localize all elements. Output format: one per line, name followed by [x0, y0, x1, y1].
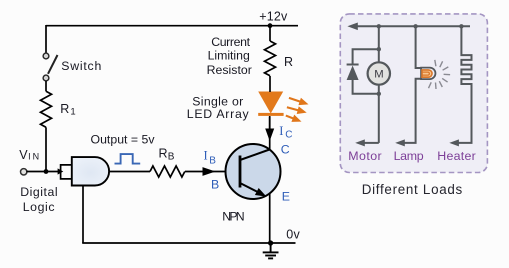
wire collector vertical — [269, 116, 271, 150]
svg-text:1: 1 — [70, 107, 75, 118]
svg-text:+12v: +12v — [259, 9, 288, 23]
wire gate bottom — [82, 186, 84, 244]
wire top rail +12v — [46, 25, 298, 27]
wire motor branch upper — [378, 26, 380, 63]
svg-text:I: I — [204, 149, 208, 163]
transistor NPN body — [226, 144, 281, 199]
svg-text:Lamp: Lamp — [394, 149, 424, 163]
gate input bracket — [61, 165, 72, 179]
svg-text:Limiting: Limiting — [208, 48, 250, 62]
node diode bottom junction — [377, 92, 381, 96]
arrowhead motor return — [355, 139, 365, 146]
svg-text:Heater: Heater — [437, 149, 476, 163]
wire VIN to gate — [26, 171, 60, 173]
switch — [43, 53, 57, 81]
arrowhead IC current — [265, 129, 274, 142]
arrowhead into gate — [58, 168, 64, 174]
wire emitter vertical — [269, 194, 271, 244]
wire LED to collector — [269, 117, 271, 130]
LED — [258, 92, 283, 116]
wire left vertical to switch — [45, 25, 47, 53]
transistor collector stroke — [240, 150, 270, 161]
node heater top — [459, 24, 463, 28]
svg-text:Different Loads: Different Loads — [362, 182, 463, 197]
node +12v junction — [268, 23, 273, 28]
flyback diode — [347, 49, 379, 94]
svg-text:Motor: Motor — [348, 149, 382, 163]
node lamp top — [413, 24, 417, 28]
terminal VIN — [21, 169, 27, 175]
svg-text:B: B — [209, 156, 216, 167]
arrowhead IB current — [203, 167, 216, 176]
svg-text:LED Array: LED Array — [187, 107, 250, 121]
svg-text:Switch: Switch — [61, 59, 101, 73]
svg-text:Logic: Logic — [23, 200, 55, 214]
lamp bulb — [421, 68, 435, 80]
loads inset box — [340, 14, 487, 173]
node motor top — [377, 24, 381, 28]
svg-text:C: C — [285, 130, 292, 141]
resistor RB — [150, 166, 185, 177]
resistor R — [265, 41, 276, 76]
transistor emitter stroke with arrow — [240, 183, 258, 192]
transistor base bar — [239, 156, 242, 188]
wire node to R — [269, 26, 271, 41]
svg-text:Current: Current — [211, 35, 250, 49]
wire motor bottom bend — [363, 142, 379, 144]
node diode top junction — [377, 47, 381, 51]
node emitter-ground junction — [268, 240, 273, 245]
svg-text:Output = 5v: Output = 5v — [91, 133, 156, 147]
svg-text:NPN: NPN — [222, 210, 245, 224]
and-gate body — [72, 157, 109, 185]
wire lamp branch lower — [404, 79, 421, 143]
wire bottom rail 0v — [82, 242, 295, 244]
svg-text:0v: 0v — [286, 227, 300, 241]
svg-text:C: C — [281, 142, 290, 156]
wire R to LED — [269, 76, 271, 92]
svg-text:E: E — [282, 190, 290, 204]
wire R1 to input node — [45, 127, 47, 171]
arrowhead loads current — [347, 23, 357, 31]
wire loads top rail — [356, 25, 470, 27]
wire motor branch lower — [378, 84, 380, 143]
wire lamp branch upper — [416, 26, 421, 68]
wire gate output — [109, 171, 150, 173]
svg-text:IN: IN — [28, 151, 39, 161]
svg-text:Resistor: Resistor — [207, 63, 252, 77]
svg-text:I: I — [279, 124, 283, 138]
ground — [263, 243, 279, 258]
wire RB to base — [185, 171, 226, 173]
arrowhead heater return — [449, 139, 459, 146]
pulse waveform icon — [115, 154, 141, 164]
svg-text:B: B — [211, 177, 219, 191]
svg-text:R: R — [60, 102, 69, 116]
svg-text:Digital: Digital — [20, 185, 57, 199]
svg-text:M: M — [374, 68, 383, 80]
svg-text:B: B — [168, 152, 175, 163]
svg-text:V: V — [19, 148, 28, 162]
heater element — [458, 26, 472, 143]
node input junction — [44, 169, 49, 174]
resistor R1 — [41, 91, 52, 127]
lamp rays — [429, 60, 451, 89]
LED emission arrows — [284, 94, 309, 125]
svg-text:R: R — [159, 146, 168, 160]
arrowhead lamp return — [395, 139, 405, 146]
svg-text:R: R — [284, 55, 293, 69]
wire switch to R1 — [45, 81, 47, 91]
motor M — [368, 62, 390, 84]
